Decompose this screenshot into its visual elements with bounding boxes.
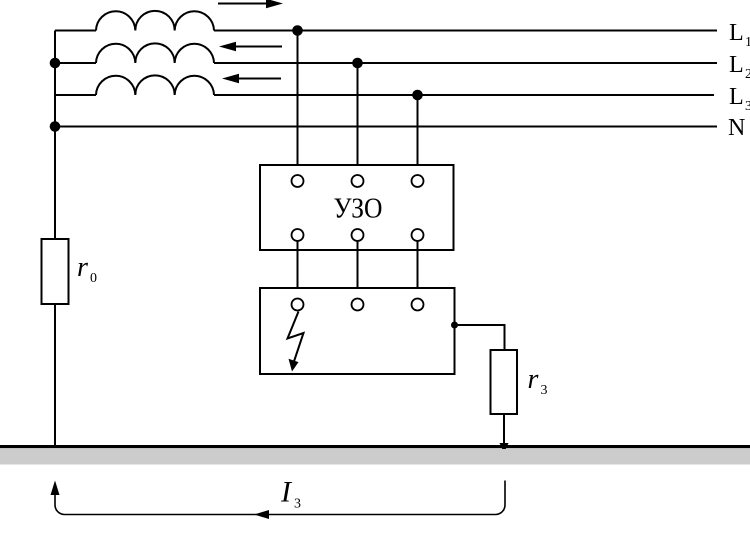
- UZO terminal pin top 3: [412, 175, 424, 187]
- label L2: [729, 52, 750, 82]
- label r3: [528, 364, 548, 398]
- svg-text:L: L: [729, 52, 744, 78]
- load terminal pin 2: [352, 299, 364, 311]
- arrow into earth: [500, 443, 509, 453]
- inductor L1 coil: [96, 11, 214, 31]
- svg-text:0: 0: [90, 271, 97, 286]
- svg-text:3: 3: [294, 497, 301, 512]
- svg-text:r: r: [528, 364, 539, 395]
- label r0: [77, 252, 97, 286]
- svg-text:3: 3: [745, 99, 750, 114]
- arrow current direction left (between L2 and L3): [222, 74, 281, 84]
- UZO terminal pin top 1: [292, 175, 304, 187]
- inductor L2 coil: [96, 43, 214, 63]
- node N left junction: [50, 121, 61, 132]
- RCD device UZO box: [260, 165, 454, 250]
- svg-text:2: 2: [745, 67, 750, 82]
- wire L2 right segment: [214, 62, 717, 64]
- svg-text:УЗО: УЗО: [334, 193, 383, 225]
- current loop I3: [51, 481, 506, 520]
- wire L2 left segment: [55, 62, 96, 64]
- UZO terminal pin bottom 2: [352, 229, 364, 241]
- resistor r0: [42, 239, 69, 304]
- UZO terminal pin top 2: [352, 175, 364, 187]
- label L3: [729, 84, 750, 114]
- UZO terminal pin bottom 1: [292, 229, 304, 241]
- load terminal pin 3: [412, 299, 424, 311]
- wire L3 right segment: [214, 94, 714, 96]
- fault lightning arrow: [288, 312, 304, 372]
- wire left vertical bus: [54, 31, 56, 240]
- node L3 tap: [412, 90, 423, 101]
- resistor r3: [491, 350, 518, 414]
- wire N: [55, 126, 717, 128]
- wire L1 right segment: [214, 30, 717, 32]
- UZO terminal pin bottom 3: [412, 229, 424, 241]
- wire L3 tap to UZO: [417, 95, 419, 175]
- label L1: [729, 20, 750, 50]
- earth surface line: [0, 445, 750, 448]
- svg-text:1: 1: [745, 35, 750, 50]
- svg-text:L: L: [729, 20, 744, 46]
- svg-text:3: 3: [541, 383, 548, 398]
- svg-text:r: r: [77, 252, 88, 283]
- wire L3 left segment: [55, 94, 96, 96]
- wire UZO to load box 3: [417, 241, 419, 299]
- svg-text:L: L: [729, 84, 744, 110]
- wire L2 tap to UZO: [357, 63, 359, 175]
- arrow current direction left (between L1 and L2): [219, 42, 282, 52]
- node L2 left junction: [50, 58, 61, 69]
- wire UZO to load box 1: [297, 241, 299, 299]
- node L2 tap: [352, 58, 363, 69]
- wire r0 to earth: [54, 304, 56, 446]
- node load box right: [451, 322, 458, 329]
- load terminal pin 1: [292, 299, 304, 311]
- svg-text:N: N: [728, 115, 745, 141]
- wire load to r3: [455, 325, 505, 350]
- wire r3 to earth: [503, 414, 505, 443]
- load box: [260, 288, 455, 374]
- label I3: [280, 476, 301, 512]
- wire L1 tap to UZO: [297, 31, 299, 176]
- earth ground band: [0, 449, 750, 465]
- wire L1 left segment: [55, 30, 96, 32]
- arrow current direction right (above L1): [218, 0, 283, 8]
- inductor L3 coil: [96, 75, 214, 95]
- node L1 tap: [292, 25, 303, 36]
- wire UZO to load box 2: [357, 241, 359, 299]
